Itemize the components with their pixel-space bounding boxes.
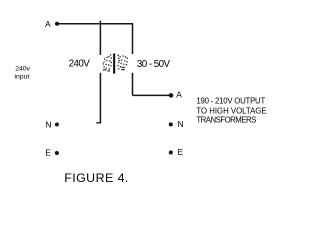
wire primary bottom lead hook to neutral [96,122,100,124]
svg-text:A: A [45,19,51,29]
node N output terminal dot [169,122,173,126]
node A terminal dot [55,22,59,26]
transformer T1 primary winding scribble [103,54,112,71]
svg-text:A: A [176,89,182,99]
wire primary top lead vertical [99,21,101,55]
svg-text:N: N [178,119,184,129]
svg-text:TO HIGH VOLTAGE: TO HIGH VOLTAGE [196,106,266,115]
svg-text:E: E [178,147,184,157]
wire top horizontal from A to transformer right lead [59,23,134,25]
svg-text:FIGURE 4.: FIGURE 4. [64,171,129,185]
transformer T1 secondary winding scribble [117,55,128,71]
wire output horizontal to A output terminal [133,94,170,96]
svg-text:input: input [15,74,30,81]
node E output terminal dot [169,151,173,155]
wire primary bottom lead vertical [99,73,101,123]
svg-text:N: N [45,119,51,129]
svg-text:190 - 210V OUTPUT: 190 - 210V OUTPUT [196,97,265,106]
svg-text:30 - 50V: 30 - 50V [137,59,171,70]
node E input terminal dot [55,151,59,155]
node N input terminal dot [55,123,59,127]
node A output arrow dot [169,93,174,98]
transformer T1 core [113,53,115,73]
svg-text:240V: 240V [69,59,91,70]
svg-text:TRANSFORMERS: TRANSFORMERS [196,115,256,124]
svg-text:E: E [45,148,51,158]
wire secondary top lead vertical [132,24,134,54]
svg-text:240v: 240v [15,66,30,73]
wire secondary bottom lead vertical [132,73,134,96]
